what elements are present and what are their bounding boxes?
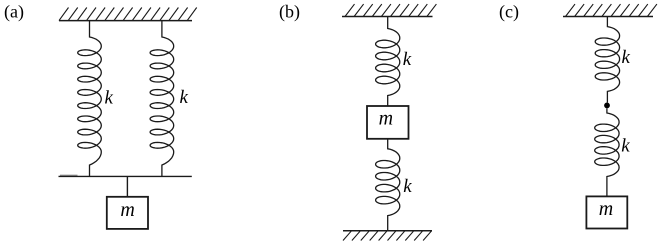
floor (b) hatching [343, 231, 432, 241]
svg-text:k: k [105, 88, 114, 109]
floor (b) line [343, 230, 432, 232]
svg-text:(a): (a) [4, 2, 24, 23]
ceiling (c) line [563, 16, 653, 18]
svg-text:k: k [622, 47, 631, 68]
mass box m (b) [367, 106, 409, 139]
ceiling (b) hatching [345, 4, 436, 16]
bar (a) left doubled segment [60, 174, 78, 176]
svg-text:k: k [180, 87, 189, 108]
spring k (c) top [595, 17, 619, 103]
svg-text:(b): (b) [279, 2, 300, 23]
ceiling (c) hatching [566, 4, 657, 16]
svg-text:m: m [379, 108, 393, 130]
wire hanger (a) [126, 176, 128, 196]
svg-text:(c): (c) [499, 2, 519, 23]
svg-text:k: k [621, 136, 630, 157]
ceiling (a) line [59, 20, 192, 22]
svg-text:k: k [403, 176, 412, 197]
mass box m (c) [586, 196, 627, 228]
svg-text:k: k [403, 49, 412, 70]
spring k (a) left [78, 21, 102, 177]
node junction dot (c) [604, 103, 610, 109]
spring k (a) right [150, 21, 174, 177]
spring k (b) top [376, 17, 400, 107]
ceiling (b) line [342, 16, 433, 18]
svg-text:m: m [599, 198, 613, 220]
bar (a) [59, 175, 192, 177]
spring k (b) bottom [376, 139, 400, 231]
mass box m (a) [107, 197, 148, 229]
svg-text:m: m [120, 199, 134, 221]
spring k (c) bottom [595, 108, 619, 196]
ceiling (a) hatching [59, 8, 197, 21]
